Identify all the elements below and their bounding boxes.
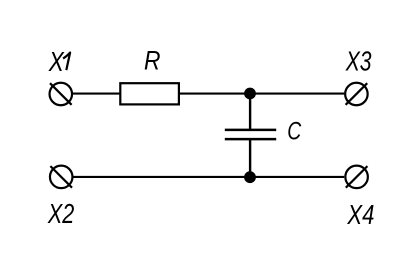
svg-text:X4: X4 — [347, 199, 375, 230]
svg-text:X: X — [48, 46, 65, 77]
svg-text:X2: X2 — [47, 198, 74, 229]
svg-text:R: R — [144, 45, 161, 75]
svg-text:X3: X3 — [345, 46, 372, 77]
svg-text:C: C — [287, 118, 302, 146]
